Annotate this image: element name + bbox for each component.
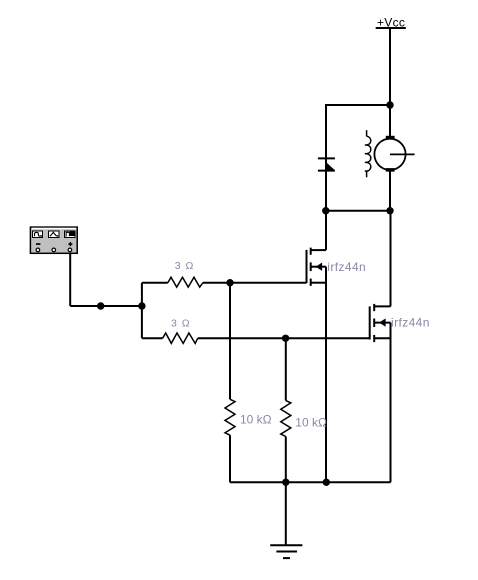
- svg-text:10 kΩ: 10 kΩ: [295, 415, 327, 429]
- node E junction generator wire: [138, 302, 145, 309]
- transistor Q1 irfz44n: [307, 248, 327, 286]
- wire top horizontal to diode branch: [326, 104, 390, 106]
- wire motor top lead: [389, 104, 391, 137]
- node C junction motor-bottom: [386, 207, 393, 214]
- wire bottom rail: [230, 481, 391, 483]
- wire gate2 left segment: [142, 337, 163, 339]
- wire M2 drain vertical: [390, 211, 392, 307]
- transistor Q1 arrow: [316, 263, 322, 271]
- svg-text:irfz44n: irfz44n: [391, 316, 430, 330]
- transistor Q2 irfz44n: [370, 304, 391, 342]
- svg-text:3 Ω: 3 Ω: [175, 260, 195, 272]
- node D junction gate1/R3: [226, 279, 233, 286]
- node G junction gate2/R4: [282, 335, 289, 342]
- transistor Q2 arrow: [379, 318, 385, 326]
- wire R4 bottom vertical: [285, 437, 287, 483]
- svg-text:3 Ω: 3 Ω: [171, 317, 191, 329]
- function generator terminal common: [52, 248, 56, 252]
- wire R4 top vertical: [285, 338, 287, 400]
- function generator minus label: [36, 243, 40, 245]
- function generator triangle icon dot: [57, 235, 59, 236]
- function generator triangle icon: [50, 232, 57, 236]
- function generator square button (selected): [64, 231, 75, 238]
- diode D1 triangle: [326, 162, 335, 170]
- function generator plus label: [68, 242, 72, 246]
- function generator square icon wave: [66, 232, 69, 236]
- function generator triangle button: [48, 231, 59, 238]
- svg-text:irfz44n: irfz44n: [327, 260, 366, 274]
- node H junction ground: [282, 479, 289, 486]
- diode D1 anode bar: [318, 170, 335, 172]
- wire M1 source vertical: [325, 267, 327, 483]
- wire gate2 right segment: [198, 337, 370, 339]
- motor M1 armature circle: [374, 139, 405, 170]
- function generator terminal minus: [36, 248, 40, 252]
- motor M1 bottom brush: [386, 168, 395, 172]
- wire between node B and node C: [326, 210, 390, 212]
- node A junction at Vcc/motor/diode: [386, 101, 393, 108]
- wire gate1 right segment: [203, 282, 307, 284]
- wire gate1 left segment: [142, 282, 168, 284]
- wire ground lead: [285, 482, 287, 545]
- wire M1 drain vertical: [325, 211, 327, 250]
- ground symbol: [270, 545, 302, 558]
- wire left vertical between R1 and R2: [141, 283, 143, 339]
- function generator highlight: [32, 228, 77, 230]
- function generator sine icon dot: [40, 235, 42, 237]
- wire Vcc vertical: [389, 27, 391, 105]
- wire R3 bottom vertical: [229, 435, 231, 482]
- node F junction on generator wire: [97, 302, 104, 309]
- wire M2 source vertical: [390, 323, 392, 483]
- motor M1 shaft line: [390, 153, 415, 155]
- function generator terminal plus: [68, 248, 72, 252]
- wire generator vertical: [69, 254, 71, 306]
- wire R3 top vertical: [229, 283, 231, 400]
- resistor R2 3 Ohm: [163, 333, 198, 343]
- wire motor bottom lead: [389, 170, 391, 211]
- resistor R4 10k: [281, 401, 291, 437]
- node B junction diode-bottom: [322, 207, 329, 214]
- function generator sine button: [32, 231, 43, 238]
- motor M1 top brush: [386, 136, 395, 140]
- motor M1 field coil: [365, 130, 371, 177]
- resistor R3 10k: [225, 399, 235, 435]
- node I junction M1 source at bottom: [323, 479, 330, 486]
- wire generator horizontal: [70, 305, 142, 307]
- wire diode branch vertical: [325, 104, 327, 211]
- resistor R1 3 Ohm: [168, 277, 203, 287]
- power rail +Vcc bar: [376, 27, 406, 29]
- function generator sine icon: [35, 232, 40, 236]
- function generator XFG1 body: [30, 227, 77, 253]
- diode D1 cathode bar: [318, 157, 335, 159]
- svg-text:10 kΩ: 10 kΩ: [240, 412, 272, 426]
